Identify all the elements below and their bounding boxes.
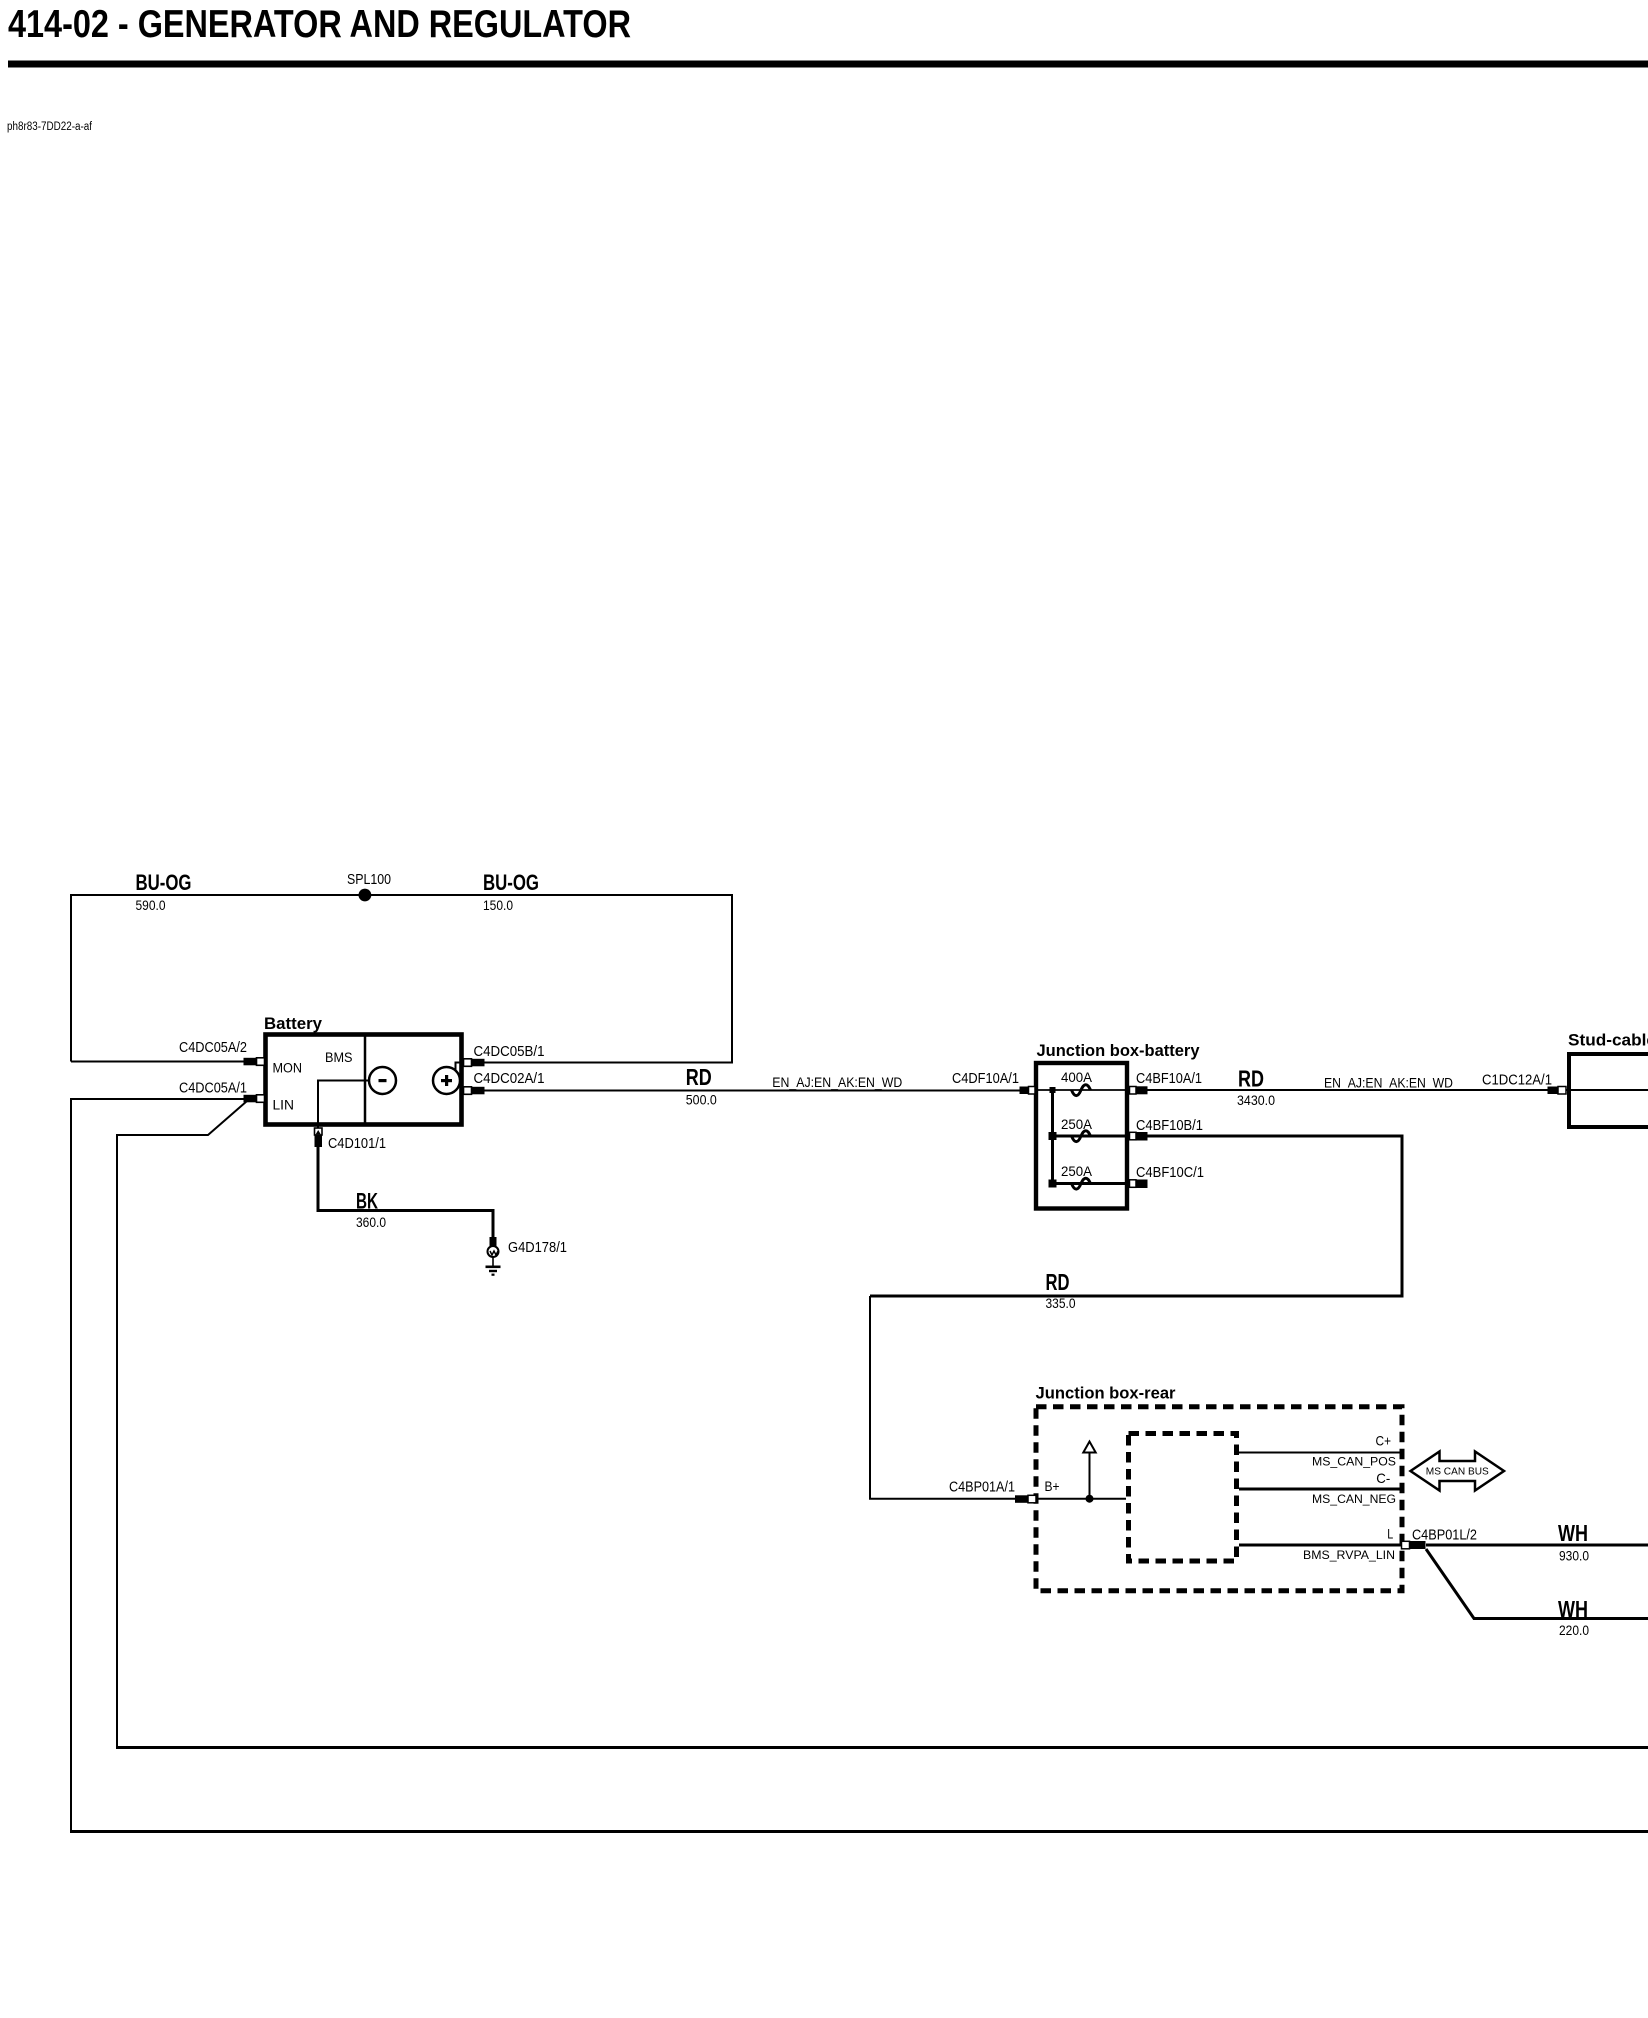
svg-text:C4DC05A/1: C4DC05A/1 [179, 1081, 247, 1097]
svg-text:LIN: LIN [273, 1098, 295, 1113]
svg-text:BU-OG: BU-OG [136, 870, 192, 895]
svg-text:220.0: 220.0 [1559, 1623, 1589, 1638]
svg-text:BK: BK [356, 1189, 378, 1214]
svg-text:930.0: 930.0 [1559, 1549, 1589, 1564]
svg-text:SPL100: SPL100 [347, 872, 391, 888]
svg-text:EN_AJ:EN_AK:EN_WD: EN_AJ:EN_AK:EN_WD [1324, 1076, 1453, 1091]
svg-text:C1DC12A/1: C1DC12A/1 [1482, 1073, 1552, 1089]
svg-text:Stud-cable: Stud-cable [1568, 1032, 1648, 1050]
svg-text:G4D178/1: G4D178/1 [508, 1240, 567, 1256]
svg-text:BU-OG: BU-OG [483, 870, 539, 895]
svg-text:WH: WH [1558, 1520, 1588, 1546]
svg-text:590.0: 590.0 [136, 898, 166, 913]
svg-text:RD: RD [686, 1064, 712, 1090]
svg-text:360.0: 360.0 [356, 1215, 386, 1230]
svg-text:C4BF10C/1: C4BF10C/1 [1136, 1165, 1204, 1181]
svg-text:C-: C- [1376, 1470, 1390, 1486]
svg-text:C4DC05A/2: C4DC05A/2 [179, 1040, 247, 1056]
svg-text:L: L [1387, 1525, 1393, 1541]
svg-text:C4BP01L/2: C4BP01L/2 [1412, 1528, 1477, 1544]
svg-text:RD: RD [1238, 1066, 1264, 1092]
svg-text:WH: WH [1558, 1596, 1588, 1622]
svg-text:MS_CAN_NEG: MS_CAN_NEG [1312, 1492, 1396, 1506]
svg-text:B+: B+ [1045, 1478, 1060, 1494]
svg-text:500.0: 500.0 [686, 1093, 717, 1108]
svg-text:BMS_RVPA_LIN: BMS_RVPA_LIN [1303, 1548, 1395, 1562]
svg-text:335.0: 335.0 [1046, 1296, 1076, 1311]
svg-text:414-02 - GENERATOR AND REGULAT: 414-02 - GENERATOR AND REGULATOR [8, 3, 631, 46]
svg-text:EN_AJ:EN_AK:EN_WD: EN_AJ:EN_AK:EN_WD [772, 1075, 902, 1090]
svg-text:BMS: BMS [325, 1050, 353, 1065]
svg-text:C4DF10A/1: C4DF10A/1 [952, 1071, 1019, 1087]
svg-text:250A: 250A [1061, 1163, 1093, 1179]
svg-text:3430.0: 3430.0 [1237, 1093, 1275, 1108]
svg-text:150.0: 150.0 [483, 898, 513, 913]
svg-text:Battery: Battery [264, 1015, 323, 1033]
svg-text:C4DC02A/1: C4DC02A/1 [474, 1071, 545, 1087]
svg-text:400A: 400A [1061, 1069, 1093, 1085]
svg-text:250A: 250A [1061, 1116, 1093, 1132]
svg-text:C4BF10B/1: C4BF10B/1 [1136, 1118, 1203, 1134]
svg-text:MON: MON [273, 1061, 303, 1076]
svg-text:MS CAN BUS: MS CAN BUS [1426, 1466, 1489, 1478]
svg-text:MS_CAN_POS: MS_CAN_POS [1312, 1454, 1396, 1468]
svg-text:Junction box-battery: Junction box-battery [1037, 1042, 1201, 1060]
svg-text:C4BP01A/1: C4BP01A/1 [949, 1480, 1015, 1496]
svg-text:C4D101/1: C4D101/1 [328, 1136, 386, 1152]
svg-text:ph8r83-7DD22-a-af: ph8r83-7DD22-a-af [7, 121, 93, 133]
svg-text:RD: RD [1046, 1269, 1070, 1295]
svg-text:C4DC05B/1: C4DC05B/1 [474, 1044, 545, 1060]
svg-text:C+: C+ [1376, 1433, 1392, 1449]
svg-text:C4BF10A/1: C4BF10A/1 [1136, 1071, 1202, 1087]
svg-text:Junction box-rear: Junction box-rear [1036, 1385, 1177, 1403]
